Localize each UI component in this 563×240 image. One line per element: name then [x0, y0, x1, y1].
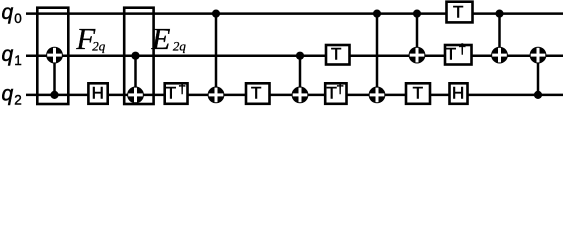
cnot target on q1 (CNOT1) — [46, 47, 63, 64]
svg-text:2q: 2q — [173, 38, 187, 53]
wire q1 — [26, 54, 563, 57]
svg-text:2q: 2q — [92, 38, 106, 53]
svg-text:q: q — [2, 1, 14, 24]
svg-text:†: † — [458, 41, 466, 57]
gate T-dagger on q1 — [445, 41, 472, 65]
label q0 — [2, 1, 22, 26]
label q1 — [2, 43, 22, 68]
svg-text:T: T — [453, 2, 463, 21]
svg-text:T: T — [446, 44, 456, 63]
cnot control dot on q0 (CNOT3) — [212, 10, 220, 18]
label q2 — [2, 82, 22, 107]
cnot target on q2 (CNOT4) — [292, 87, 309, 104]
cnot control dot on q0 (CNOT5) — [373, 10, 381, 18]
svg-text:†: † — [336, 80, 344, 96]
wire q0 — [26, 12, 563, 15]
cnot control dot on q0 (CNOT6) — [413, 10, 421, 18]
cnot target on q1 (CNOT6) — [409, 47, 426, 64]
cnot target on q1 (CNOT7) — [491, 47, 508, 64]
wire CNOT7 vertical connector — [498, 14, 501, 56]
svg-text:T: T — [166, 84, 176, 103]
cnot target on q1 (CNOT8) — [530, 47, 547, 64]
gate T on q1 — [326, 44, 350, 64]
gate T-dagger on q2 (first) — [165, 80, 188, 104]
gate H on q2 (second) — [450, 83, 468, 104]
wire CNOT1 vertical connector — [53, 56, 56, 95]
svg-text:†: † — [178, 80, 186, 96]
cnot control dot on q2 (CNOT8) — [534, 91, 542, 99]
svg-text:T: T — [331, 44, 341, 63]
wire CNOT5 vertical connector — [376, 14, 379, 95]
svg-text:H: H — [452, 84, 464, 103]
cnot control dot on q2 (CNOT1) — [50, 91, 58, 99]
gate T on q0 — [447, 2, 473, 23]
gate T on q2 (first) — [246, 83, 270, 104]
gate T-dagger on q2 (second) — [325, 80, 346, 104]
wire CNOT8 vertical connector — [537, 56, 540, 95]
wire CNOT4 vertical connector — [299, 56, 302, 95]
cnot target on q2 (CNOT2) — [127, 87, 144, 104]
cnot control dot on q1 (CNOT2) — [131, 52, 139, 60]
cnot control dot on q0 (CNOT7) — [495, 10, 503, 18]
box F2q noise (tall rectangle spanning all qubits) — [37, 8, 68, 104]
box E2q noise (tall rectangle spanning all qubits) — [124, 8, 153, 104]
cnot target on q2 (CNOT5) — [369, 87, 386, 104]
label E2q — [151, 21, 187, 56]
svg-text:T: T — [251, 84, 261, 103]
svg-text:2: 2 — [14, 92, 22, 107]
svg-text:0: 0 — [14, 11, 22, 26]
wire CNOT2 vertical connector — [134, 56, 137, 95]
gate T on q2 (second) — [406, 83, 430, 104]
cnot control dot on q1 (CNOT4) — [296, 52, 304, 60]
wire CNOT6 vertical connector — [416, 14, 419, 56]
svg-text:E: E — [151, 21, 171, 56]
svg-text:q: q — [2, 82, 14, 105]
svg-text:q: q — [2, 43, 14, 66]
svg-text:H: H — [92, 84, 104, 103]
label F2q — [75, 21, 106, 56]
cnot target on q2 (CNOT3) — [208, 87, 225, 104]
gate H on q2 (first) — [88, 83, 107, 104]
svg-text:1: 1 — [14, 53, 22, 68]
wire CNOT3 vertical connector — [215, 14, 218, 95]
svg-text:T: T — [413, 84, 423, 103]
wire q2 — [26, 94, 563, 97]
